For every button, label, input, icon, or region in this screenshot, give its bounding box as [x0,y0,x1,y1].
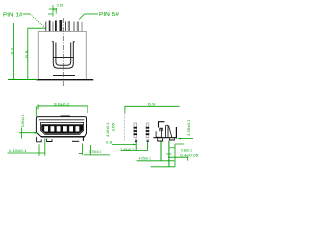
side view dim 2.45 text [120,148,134,152]
front view center hook [47,139,52,142]
side view pin B stub [147,139,149,142]
front view top latch notch [61,115,71,117]
left dimension 6.8 text [25,50,29,58]
side view dim 0.8 leader [112,144,136,146]
side view top dimension 6.9 [125,106,180,114]
front view bottom-right text [89,150,102,154]
front view width text [54,103,70,107]
side view vertical B [168,141,170,167]
front view left height text [21,114,25,127]
front view shell outline [36,117,86,137]
baseline green [8,79,38,81]
PIN 1 leader [23,14,44,27]
side view vertical C [174,144,176,167]
side view line y157 [168,157,188,160]
side view left rotated text B [112,123,116,132]
top view centerline [62,18,64,86]
svg-text:1.15±0.1: 1.15±0.1 [9,149,27,153]
svg-text:6.8: 6.8 [25,50,29,58]
svg-text:0.8±0.1: 0.8±0.1 [181,149,192,153]
top view inner plate line [53,75,75,77]
side view vertical A [160,142,162,161]
PIN 1 label [3,12,23,18]
left dimension 6.8 line [28,28,46,79]
front view right dash [72,140,79,142]
svg-text:0.2: 0.2 [54,8,58,12]
side view right foot [170,138,175,140]
svg-text:0.75±0.1: 0.75±0.1 [89,150,102,154]
front view opening band [41,124,83,133]
front view bottom-left text [9,149,27,153]
svg-text:4.05±0.1: 4.05±0.1 [139,157,151,161]
front view contacts [44,126,79,131]
side view leader to text block [176,143,185,145]
svg-text:9.0±0.2: 9.0±0.2 [54,103,70,107]
left dimension 9.3 line [12,23,14,80]
side view pin A [134,123,137,138]
front view bottom-right dimension [79,143,110,155]
front view bottom edge thick [41,136,85,138]
svg-text:4.15±0.1: 4.15±0.1 [106,122,110,137]
front view width dimension [36,105,87,117]
side view left foot [158,138,163,141]
svg-text:0.8: 0.8 [106,141,112,145]
top view shield U shape [52,42,75,68]
side view long dim 4.05 [137,160,175,162]
front view right leg [82,137,84,141]
side view small tick [170,147,175,149]
side view dim 2.45 [121,150,148,152]
side view inner hook [160,128,162,131]
side view pin B [146,123,149,138]
side view right rotated text [187,119,191,136]
svg-text:3.95±0.1: 3.95±0.1 [21,114,25,127]
svg-text:0.15: 0.15 [57,4,64,8]
side view bent lead [156,128,162,137]
side view pin A stub [135,139,137,142]
side view right bottom tick [178,138,193,140]
PIN 5 leader [79,14,98,20]
side view rear leg [166,125,172,137]
PIN 5 label [99,12,119,18]
svg-text:0.4±0.05: 0.4±0.05 [180,154,198,158]
side view top dimension text [148,102,155,106]
svg-text:3.05: 3.05 [112,123,116,132]
top view pins [46,20,82,31]
side view pin extension lines [136,143,147,151]
side view small dim [166,153,171,155]
svg-text:2.45±0.1: 2.45±0.1 [120,148,134,152]
side view long dim text [139,157,151,161]
front view inner lip line [39,119,84,121]
front view bottom-left dimension [8,139,46,156]
svg-text:3.35±0.1: 3.35±0.1 [187,119,191,136]
pitch dimension 0.8 [48,5,57,17]
front view left height dimension [19,128,38,139]
pitch dimension texts [54,4,64,12]
side view bottom line [153,137,177,139]
side view right bar [175,127,177,139]
side view left rotated text A [106,122,110,137]
front view opening outline [41,122,84,134]
svg-text:9.3: 9.3 [10,48,14,55]
svg-text:PIN 5#: PIN 5# [99,12,119,18]
side view bottom dim [151,166,176,168]
left dimension 9.3 text [10,48,14,55]
svg-text:6.9: 6.9 [148,102,155,106]
side view shell corner [159,122,165,128]
top view body [38,32,86,80]
side view right text block [180,149,198,158]
front view left leg [37,137,42,142]
side view mating face line [124,113,126,140]
svg-text:PIN 1#: PIN 1# [3,12,23,18]
side view dim 0.8 text [106,141,112,145]
top view bottom edge [36,79,93,81]
top view crossbar [53,57,73,59]
